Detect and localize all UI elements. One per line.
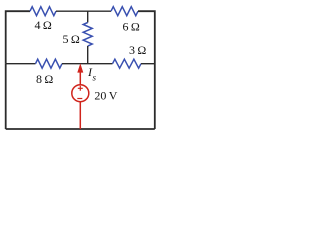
svg-text:3 Ω: 3 Ω xyxy=(129,43,146,57)
svg-text:8 Ω: 8 Ω xyxy=(36,72,53,86)
wire middle row left segment xyxy=(6,63,36,65)
resistor R 3ohm zigzag xyxy=(113,59,141,68)
wire top edge left segment xyxy=(6,11,30,64)
resistor R 6ohm zigzag xyxy=(111,7,138,16)
wire red source bottom lead xyxy=(79,102,81,129)
resistor R 4ohm zigzag xyxy=(30,7,56,16)
voltage source V1 circle xyxy=(72,85,89,102)
voltage source minus sign xyxy=(77,98,82,100)
wire middle row center segment xyxy=(62,63,113,65)
wire bottom edge xyxy=(6,128,155,130)
voltage source plus sign xyxy=(78,86,83,91)
svg-text:20 V: 20 V xyxy=(94,88,117,102)
resistor R 8ohm zigzag xyxy=(36,59,62,68)
wire 5ohm top lead xyxy=(87,11,89,22)
resistor R 5ohm vertical zigzag xyxy=(83,23,92,47)
wire top edge middle segment xyxy=(56,10,111,12)
svg-text:s: s xyxy=(93,73,97,83)
wire middle row right segment xyxy=(141,63,155,65)
current arrow Is xyxy=(77,63,83,72)
wire red source top lead xyxy=(79,66,81,85)
svg-text:4 Ω: 4 Ω xyxy=(35,18,52,32)
wire 5ohm bottom lead xyxy=(87,46,89,64)
wire left edge lower xyxy=(5,64,7,129)
wire top edge right segment + right edge xyxy=(138,11,155,129)
svg-text:5 Ω: 5 Ω xyxy=(63,32,80,46)
svg-text:6 Ω: 6 Ω xyxy=(123,20,140,34)
